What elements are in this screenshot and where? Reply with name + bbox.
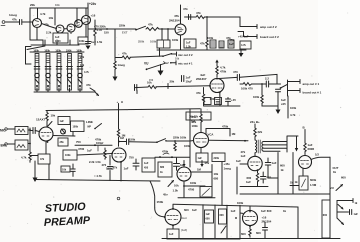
capacitor EQ branch x37 (34, 67, 40, 70)
svg-text:10k: 10k (175, 58, 180, 61)
svg-text:470: 470 (191, 115, 196, 119)
wire supply arrow stub (200, 161, 203, 168)
resistor R13 (122, 56, 130, 59)
svg-text:1uF: 1uF (231, 209, 236, 213)
box module B19 (212, 153, 225, 162)
wire Q5 top stub (180, 5, 182, 24)
value label 47k (113, 166, 118, 170)
wire V8 plate to transformer (209, 140, 249, 142)
wire output top bus (173, 204, 298, 207)
svg-text:47k: 47k (40, 158, 45, 161)
node dot V4 top (172, 208, 174, 210)
wire tick x70 (69, 40, 71, 45)
tube V6 (243, 211, 258, 226)
label contact2 (178, 62, 193, 66)
svg-text:100k 470: 100k 470 (241, 87, 253, 91)
svg-text:24v B+: 24v B+ (250, 120, 260, 124)
svg-text:47k: 47k (113, 166, 118, 170)
node junction top V2 (118, 141, 120, 143)
transformer T1 secondary (262, 142, 264, 152)
wire supply stub with arrow (215, 60, 218, 67)
value label 1uF (186, 76, 193, 84)
svg-text:1uF: 1uF (124, 167, 129, 171)
svg-text:1M: 1M (197, 168, 202, 172)
svg-text:1uF: 1uF (60, 120, 65, 123)
svg-text:10k: 10k (55, 3, 60, 7)
switch diag in table (221, 226, 226, 233)
value label +45 (238, 35, 249, 39)
svg-text:4.7k: 4.7k (40, 12, 46, 16)
svg-text:PREAMP: PREAMP (44, 215, 92, 229)
wire y141 (166, 140, 190, 142)
svg-text:22k: 22k (258, 130, 263, 134)
resistor R21 (104, 148, 106, 159)
value label 1M (197, 168, 202, 172)
node dot V4 left (164, 216, 166, 218)
svg-text:x45: x45 (281, 102, 286, 106)
wire EQ left bracket (26, 47, 32, 65)
svg-text:1meg: 1meg (9, 13, 17, 17)
potentiometer EQ branch x80 (78, 73, 82, 92)
ground symbol (113, 77, 118, 82)
svg-text:100k: 100k (150, 40, 157, 44)
wire box edge x237 (236, 167, 238, 194)
transistor Q9 (210, 79, 224, 93)
value label 10k 680 (214, 172, 219, 181)
wire tick 20k (167, 84, 169, 89)
value label 600 (280, 164, 285, 173)
wire feed to output switch (217, 74, 277, 84)
node dot (29, 129, 31, 131)
value label 47k (44, 23, 49, 27)
value label 470 (229, 38, 234, 46)
value label 1M (232, 132, 237, 136)
svg-text:4.7k: 4.7k (241, 44, 246, 47)
svg-text:1M: 1M (290, 182, 293, 185)
value label 2.2k 1.5k (89, 160, 101, 164)
box module input sel2 (71, 121, 85, 132)
value label 4.7k (84, 71, 89, 74)
box module B16 (299, 176, 308, 190)
svg-text:1M: 1M (232, 132, 237, 136)
wire bracket right (287, 136, 298, 152)
svg-text:600k: 600k (310, 178, 317, 182)
svg-text:100k: 100k (253, 95, 260, 99)
svg-text:600R: 600R (308, 147, 315, 151)
value label 150k (129, 138, 136, 142)
value label 470 (267, 176, 272, 180)
tube V1 12AX7 (39, 127, 53, 141)
resistor R17 (243, 83, 251, 86)
wire long mix bus y110 (46, 109, 200, 111)
svg-text:= 4.7k: = 4.7k (94, 174, 102, 178)
transistor Q1 (33, 19, 42, 28)
value label 10k (147, 81, 152, 85)
node dot (94, 144, 96, 146)
svg-text:100k: 100k (33, 49, 39, 52)
wire rail x212 (211, 165, 213, 197)
connector tick board out 2 (256, 35, 258, 39)
degree dot (117, 197, 120, 200)
value label 10k (80, 64, 85, 67)
svg-text:220k: 220k (214, 157, 220, 160)
node dot V5 cathode (257, 169, 259, 171)
node dot (249, 210, 251, 212)
resistor R20 (29, 152, 31, 162)
tube V4 (165, 209, 181, 225)
capacitor C4 (182, 76, 184, 82)
wire bottom bus row3 (35, 180, 160, 182)
svg-text:+24v: +24v (89, 2, 96, 6)
resistor R24 (254, 128, 256, 140)
wire V2 plate node right (119, 141, 126, 143)
wire contact amp out 1 (288, 80, 301, 84)
wire y157 link (155, 156, 190, 158)
resistor R26 (249, 226, 251, 237)
box module B14 (205, 210, 214, 223)
label +16 2N1304 (262, 216, 272, 224)
wire tick x57 (56, 40, 58, 45)
value label 470k 100pf (95, 138, 103, 145)
value label 1uF (91, 40, 103, 44)
potentiometer EQ branch x59 (57, 73, 61, 92)
svg-text:47k: 47k (86, 83, 91, 87)
wire into V6 left (231, 209, 243, 213)
wire drop x161 (161, 29, 163, 40)
svg-text:750: 750 (129, 156, 134, 160)
table outline lower (180, 205, 240, 239)
value label +45 (231, 98, 236, 102)
wire tr2 out (28, 143, 30, 145)
svg-text:600: 600 (323, 214, 328, 217)
switch wiper arc (163, 153, 169, 154)
capacitor C8 (266, 81, 268, 87)
capacitor C19 (263, 223, 268, 239)
switch wiper arrow 45v (168, 180, 174, 186)
svg-text:+45v: +45v (224, 162, 231, 166)
svg-text:750: 750 (76, 140, 81, 144)
value label 1k (283, 209, 287, 213)
svg-text:1meg: 1meg (118, 63, 126, 67)
tube V5 (248, 156, 262, 170)
wire gnd stub (160, 65, 162, 71)
value label 47k (196, 91, 201, 95)
value label 750 (129, 156, 134, 160)
wire V8 grid jog (206, 129, 230, 137)
value label 600k (310, 178, 317, 187)
title PREAMP (44, 215, 92, 229)
transformer TR2 (15, 140, 28, 150)
label BAL (1, 144, 8, 148)
value label 100k (253, 95, 260, 99)
label 2N1304 (169, 14, 180, 23)
svg-text:NP: NP (88, 126, 92, 129)
svg-text:1500: 1500 (55, 40, 61, 43)
value label 1meg (118, 63, 126, 67)
svg-text:(1uF): (1uF) (181, 229, 187, 232)
wire V2 cathode (120, 161, 122, 181)
capacitor C9 (276, 89, 281, 92)
switch SW4 (94, 124, 101, 130)
svg-text:470k: 470k (222, 125, 229, 129)
svg-text:2.2k 1.5k: 2.2k 1.5k (89, 160, 101, 164)
resistor R19 (46, 111, 48, 127)
tube V2 (112, 148, 126, 162)
capacitor EQ branch x69.5 (67, 67, 73, 70)
svg-text:1uF: 1uF (246, 180, 251, 184)
wire B+ drop x305 (304, 130, 306, 144)
wire pin1 (337, 199, 353, 203)
node junction top (216, 78, 218, 80)
svg-text:600: 600 (206, 218, 211, 221)
value label 470k (220, 66, 227, 74)
value label 1M (290, 182, 293, 185)
svg-text:board out # 1: board out # 1 (303, 91, 322, 95)
wire EQ upper link y45 (31, 44, 79, 46)
wire V6 top stub (249, 206, 251, 212)
wire riser to V4 (150, 181, 164, 217)
svg-text:1meg: 1meg (224, 167, 232, 171)
node dot V4 bottom (172, 224, 174, 226)
wire input to Q1 (22, 21, 32, 23)
box module B2 (78, 37, 88, 44)
svg-text:1uF: 1uF (198, 157, 203, 160)
wire mid signal bus y29 (88, 28, 136, 30)
wire secondary tap3 (264, 147, 288, 149)
label board out #1 (303, 91, 322, 95)
value label 47k (200, 42, 205, 46)
resistor R18 (261, 95, 263, 104)
capacitor C5 (135, 85, 137, 91)
wire x262 drop (261, 84, 263, 95)
svg-text:470: 470 (233, 70, 238, 74)
value label 470 (94, 25, 106, 29)
svg-text:1uF: 1uF (144, 162, 149, 165)
wire out rail x330 (329, 157, 331, 238)
svg-text:25k: 25k (60, 141, 65, 144)
value label 600 (341, 176, 346, 180)
ground symbol (276, 110, 281, 115)
box module B17 output trans (322, 200, 330, 238)
value label 220k (173, 136, 187, 140)
tube V3 (177, 167, 191, 181)
label 2N1304 (196, 73, 207, 81)
svg-text:1M: 1M (191, 120, 196, 124)
node dot (29, 143, 31, 145)
value label 10k (55, 3, 60, 7)
label MIC (0, 129, 7, 133)
wire cap to V1 (30, 131, 39, 132)
potentiometer EQ branch x48 (46, 73, 50, 92)
node +24v (89, 2, 96, 6)
capacitor C18 (350, 210, 352, 215)
label 1h (241, 150, 246, 158)
resistor R16 (202, 88, 204, 106)
svg-text:4.7k: 4.7k (290, 113, 296, 117)
wire T1 bottom to V5 (254, 153, 256, 156)
wire V1 grid cap stub (47, 122, 52, 128)
value label 4.7k (97, 28, 103, 32)
svg-text:1k: 1k (333, 170, 337, 174)
value label 600 (241, 232, 246, 236)
wire rail x115 (114, 29, 116, 61)
svg-text:45v: 45v (163, 193, 168, 197)
svg-text:220k: 220k (119, 24, 126, 28)
transformer TR1 (15, 127, 28, 135)
value label 250k (138, 40, 157, 44)
svg-text:board out # 2: board out # 2 (260, 35, 279, 39)
svg-text:470: 470 (102, 163, 107, 167)
wire V8 supply drop (200, 109, 202, 133)
node B+ 24v (250, 120, 260, 124)
value label 600 (256, 231, 261, 235)
wire EQ bottom bus (34, 91, 84, 93)
svg-text:w/out: w/out (180, 217, 187, 220)
box module B7 (58, 138, 68, 146)
svg-text:150k: 150k (157, 200, 164, 204)
svg-text:+: + (117, 100, 119, 104)
node dot (171, 156, 173, 158)
connector J1 mic input (1, 21, 5, 26)
value label 20k (170, 80, 175, 84)
potentiometer EQ branch x37 (35, 73, 39, 92)
value label 45v (163, 193, 168, 197)
switch SW1 (135, 26, 145, 30)
value label 150k (157, 200, 164, 204)
resistor EQ branch x48 (44, 49, 50, 90)
svg-text:1k: 1k (281, 168, 285, 172)
box module B3 (184, 39, 196, 49)
box module B13 (167, 229, 179, 239)
resistor R23 (174, 141, 176, 151)
wire Q3 supply drop (76, 8, 78, 24)
switch wiper arrow (90, 88, 95, 91)
value label 4.7k (94, 174, 102, 178)
svg-text:100k: 100k (66, 49, 72, 52)
wire V8 base link (190, 140, 194, 143)
resistor R27 (304, 143, 306, 155)
svg-text:2N1304: 2N1304 (169, 19, 180, 23)
svg-text:600: 600 (341, 176, 346, 180)
resistor R6 (146, 28, 159, 31)
resistor box below Q9 b (204, 98, 211, 105)
wire Q5 emitter down (180, 35, 182, 50)
label VU (315, 153, 319, 157)
value label 1uF x45 (281, 98, 286, 106)
svg-text:100k: 100k (190, 181, 197, 185)
svg-text:100k: 100k (73, 126, 79, 129)
svg-text:450: 450 (144, 167, 149, 170)
svg-text:10uF: 10uF (186, 80, 193, 84)
wire secondary tap1 (264, 141, 288, 143)
svg-text:47k: 47k (148, 23, 153, 27)
connector mic in (5, 128, 15, 130)
svg-text:100k: 100k (184, 144, 191, 148)
potentiometer EQ branch x69.5 (67, 73, 71, 92)
wire drop x168 (167, 29, 169, 40)
wire y84 feed (240, 83, 281, 85)
svg-text:VCA: VCA (208, 133, 214, 137)
box row input module (58, 117, 70, 125)
value label OUT 1k (333, 166, 339, 174)
wire drop x207 (206, 17, 208, 40)
label 100k pot (184, 144, 191, 148)
wire main rail x88 (87, 3, 89, 44)
svg-text:22k: 22k (80, 56, 85, 59)
node dot V6 bottom (249, 225, 251, 227)
value label 100k 470 (241, 87, 253, 91)
value label 1uF (87, 146, 98, 153)
wire mix bus to Q9 (135, 86, 210, 88)
value label 47k (183, 7, 188, 11)
resistor R12 (114, 61, 116, 76)
value label 470k (162, 150, 169, 154)
capacitor C7 (226, 98, 231, 107)
wire to switch SW5 (129, 141, 157, 143)
svg-text:1uF: 1uF (186, 42, 191, 45)
value label 10k (51, 114, 56, 118)
wire right rail x298 (297, 207, 299, 239)
svg-text:mic out # 2: mic out # 2 (178, 53, 193, 57)
svg-text:2.2k: 2.2k (46, 31, 52, 35)
box module B18 (196, 153, 208, 162)
label contact1 (178, 53, 193, 57)
label 10k (175, 58, 180, 61)
scribble note2 (181, 229, 187, 232)
wire V4 top stub (172, 204, 174, 208)
wire y186 mid (240, 185, 268, 187)
value label 2.2k (46, 31, 52, 35)
wire pin3 arrow (337, 218, 344, 225)
wire y185 link (290, 185, 299, 187)
wire pin2 (337, 211, 349, 213)
svg-text:BAL: BAL (1, 144, 8, 148)
title STUDIO (45, 201, 87, 215)
svg-text:+45 1uF: +45 1uF (238, 35, 249, 39)
wire drop x49 (48, 164, 50, 180)
value label 10k (49, 16, 54, 20)
svg-text:10k: 10k (62, 169, 67, 172)
wire Q1 collector drop (37, 8, 39, 19)
resistor R5 (94, 20, 97, 45)
svg-text:VU: VU (144, 62, 149, 66)
value label 100k (237, 201, 244, 205)
wire pin arrow (338, 205, 343, 210)
svg-text:1uF: 1uF (272, 161, 277, 165)
wire switch pole (287, 80, 289, 96)
capacitor C12 (71, 164, 75, 176)
wire into Q6 (77, 153, 113, 155)
node dot (159, 156, 161, 158)
transistor Q5 2N1304 (175, 24, 186, 35)
svg-text:1.5M: 1.5M (310, 183, 317, 187)
value label 47k 100k (192, 120, 199, 128)
wire tick x45 (44, 40, 46, 45)
svg-text:4700: 4700 (78, 147, 85, 151)
value label 470 (102, 163, 107, 167)
capacitor C10 (33, 128, 35, 134)
svg-text:100k: 100k (207, 36, 214, 40)
label amp out #1 (303, 82, 320, 86)
svg-text:amp out # 2: amp out # 2 (260, 25, 277, 29)
wire Q3 emitter drop (70, 32, 72, 34)
value label 1uF 600 (261, 209, 272, 213)
node junction emitter (219, 92, 221, 94)
box row module B4 (157, 40, 170, 48)
value label 47k (86, 83, 91, 87)
capacitor C14 (133, 159, 139, 170)
node junction base (209, 85, 211, 87)
